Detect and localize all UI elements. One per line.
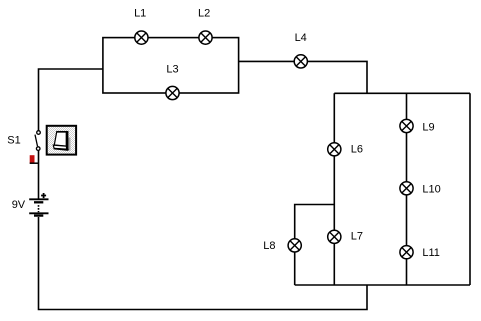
- svg-text:L2: L2: [198, 8, 210, 20]
- lamp L7: [328, 230, 341, 243]
- svg-text:S1: S1: [7, 135, 20, 147]
- lamp L2: [199, 31, 212, 44]
- svg-text:L4: L4: [295, 32, 307, 44]
- lamp L4: [294, 55, 307, 68]
- lamp L1: [135, 31, 148, 44]
- svg-text:L6: L6: [351, 144, 363, 156]
- svg-text:L9: L9: [422, 121, 434, 133]
- svg-text:L3: L3: [166, 63, 178, 75]
- wire: parallel block (L1,L2 top branch / L3 bottom branch) rectangle: [103, 38, 239, 93]
- svg-text:L8: L8: [263, 240, 275, 252]
- svg-text:L1: L1: [134, 8, 146, 20]
- wire: right network left branch (L6, L7): [333, 93, 335, 285]
- switch S1 red actuator marker: [30, 155, 39, 163]
- wire: switch top terminal up and right to parallel block left: [39, 69, 103, 131]
- lamp L9: [400, 119, 413, 132]
- wire: switch bottom terminal down to battery positive: [38, 151, 40, 200]
- wire: right network top edge: [334, 92, 470, 94]
- switch S1 rocker icon box: [47, 126, 76, 155]
- svg-text:L11: L11: [422, 247, 440, 259]
- lamp L3: [166, 86, 179, 99]
- lamp L6: [328, 143, 341, 156]
- svg-text:9V: 9V: [12, 199, 26, 211]
- wire: return path from network bottom to battery negative: [39, 217, 368, 310]
- wire: right network bottom edge: [295, 284, 470, 286]
- wire: right network right branch: [469, 93, 471, 285]
- lamp L10: [400, 182, 413, 195]
- lamp L11: [400, 246, 413, 259]
- wire: right network middle branch (L9, L10, L11): [406, 93, 408, 285]
- svg-text:L10: L10: [422, 183, 440, 195]
- svg-text:L7: L7: [351, 230, 363, 242]
- wire: L8 sub-branch from L6/L7 branch: [295, 205, 335, 286]
- wire: block right edge to L4 and down to right network top: [239, 61, 367, 93]
- lamp L8: [288, 239, 301, 252]
- battery B1 9V: [29, 193, 48, 216]
- switch S1 open contacts: [35, 131, 40, 151]
